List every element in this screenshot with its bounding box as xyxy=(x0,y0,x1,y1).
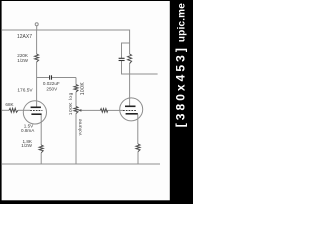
svg-text:100K: 100K xyxy=(80,82,86,96)
svg-text:[380x453] upic.me: [380x453] upic.me xyxy=(174,3,188,128)
svg-text:1/2W: 1/2W xyxy=(17,58,28,63)
svg-text:100K log: 100K log xyxy=(68,92,74,115)
svg-text:176.5V: 176.5V xyxy=(17,87,33,93)
svg-text:68K: 68K xyxy=(5,102,14,107)
svg-text:0.8mA: 0.8mA xyxy=(21,128,35,133)
svg-text:volume: volume xyxy=(77,119,83,136)
svg-text:1/2W: 1/2W xyxy=(21,143,32,148)
svg-text:12AX7: 12AX7 xyxy=(17,34,32,40)
svg-text:250V: 250V xyxy=(46,86,58,91)
